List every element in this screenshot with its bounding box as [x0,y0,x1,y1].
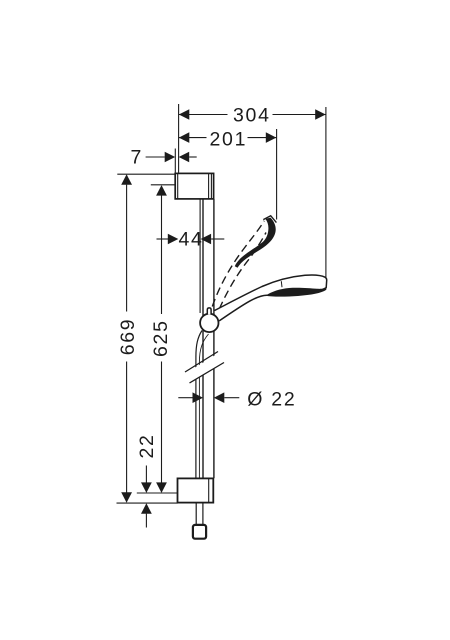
hose lower right edge [202,503,204,525]
dimension 22 vertical [141,466,152,528]
dashed raised handle curve outer [212,221,264,307]
break line 1 [185,352,218,373]
hose upper left edge [196,331,202,479]
dimension 304 [179,109,326,120]
top wall bracket [175,173,213,199]
dimension 201 [179,132,277,143]
hose lower left edge [195,503,197,525]
svg-text:625: 625 [150,319,172,357]
svg-text:201: 201 [210,128,248,150]
slide bar right edge [213,199,215,478]
holder nub [207,308,211,315]
top bracket inner line right 2 [210,173,212,199]
top bracket inner line left [177,173,179,199]
svg-text:22: 22 [136,433,158,458]
dimension 669 vertical [121,174,132,502]
extension line 201 right (to raised head tip) [276,129,278,220]
svg-text:669: 669 [117,318,139,356]
extension line bar bottom end (625 bottom / 22 top) [137,492,178,494]
slide bar left edge [202,199,204,478]
dimension 44 [157,234,225,245]
extension line wall plate front (left of 7) [174,149,176,173]
dimension 625 vertical [156,185,167,493]
hose end fitting [193,525,206,539]
svg-text:304: 304 [233,104,271,126]
extension line 669 top [117,173,176,175]
extension line wall face (right of 7 / left of 304,201) [178,104,180,173]
hose upper right edge [199,334,208,478]
raised head tip outline [263,216,276,223]
break line 2 [190,363,225,384]
extension line 44 right (to holder) [199,200,201,314]
dimension diameter 22 [178,392,239,403]
dimension 7 [146,152,197,163]
spray face dark (solid position) [266,287,327,296]
head tick mark [280,281,283,287]
bottom wall bracket [178,478,214,502]
dashed raised handle curve inner [219,233,266,310]
extension line 304 right (to shower head) [325,107,327,278]
svg-text:7: 7 [131,147,144,169]
extension line 625 top [151,184,176,186]
holder circle [200,314,218,332]
svg-text:44: 44 [179,229,204,251]
raised head spray face (dark) [235,218,276,268]
bottom bracket inner line [208,478,210,502]
hand shower solid (handle + head) [214,275,326,321]
top bracket inner line right 1 [208,173,210,199]
extension line bracket bottom (669 / 22 bottom) [117,502,178,504]
break band (bar interruption) [184,352,226,383]
svg-text:Ø 22: Ø 22 [247,389,296,411]
